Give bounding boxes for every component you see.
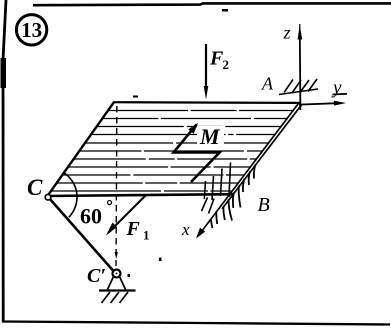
z axis arrowhead [298,25,303,40]
rod C C' [50,199,114,271]
scan speck right of pin [128,274,131,277]
svg-text:C′: C′ [87,265,106,287]
frame bottom border [2,322,390,325]
dashed projection line [115,106,118,266]
y underline [333,93,348,96]
pin at C' [113,270,121,278]
force F1 arrow [109,195,146,232]
strokes hanging below bottom edge near B [202,198,215,214]
y axis [299,103,337,104]
angle arc 60 [64,173,77,217]
problem number circle 13 [16,15,46,45]
node C circle [45,194,51,200]
support hatching at A : ledge [279,89,318,95]
svg-text:M: M [199,124,221,149]
pin support legs [108,277,126,290]
rail outer line [222,104,302,209]
svg-text:z: z [283,23,291,43]
scan speck below top border [222,9,228,12]
svg-text:1: 1 [143,228,150,243]
scan speck near F1 [159,258,162,262]
force F2 arrow [205,44,207,90]
z axis [299,24,301,31]
moment M arrowhead [188,123,198,134]
svg-text:F: F [126,218,141,240]
small arrowhead on dashed line above pin [115,252,118,259]
degree symbol [108,201,112,205]
y axis arrowhead [334,101,346,106]
scan speck above plate [133,96,138,98]
svg-text:2: 2 [223,57,230,72]
plate bottom edge [48,194,234,196]
svg-text:B: B [258,194,270,216]
pin support baseline [99,289,136,291]
plate right edge / x-axis rail inner line [199,103,299,236]
frame top border [33,3,391,5]
svg-text:60: 60 [80,204,102,229]
moment M arrow [174,125,220,183]
inner vertical strokes near corner B (inside plate) [204,163,230,201]
plate hatch lines [51,111,293,192]
frame left border blob [1,58,7,88]
pin support hatches [102,292,129,303]
plate top edge [114,101,300,104]
x axis arrowhead [196,228,205,239]
plate left edge [47,102,114,196]
svg-text:C: C [27,175,43,200]
support hatching at A : strokes [284,79,317,93]
svg-text:x: x [181,220,190,239]
wall hatching along rail near B [211,165,256,229]
svg-text:A: A [261,74,274,94]
frame left border [3,0,6,322]
svg-text:13: 13 [21,18,42,42]
white gap around M label [197,126,224,146]
